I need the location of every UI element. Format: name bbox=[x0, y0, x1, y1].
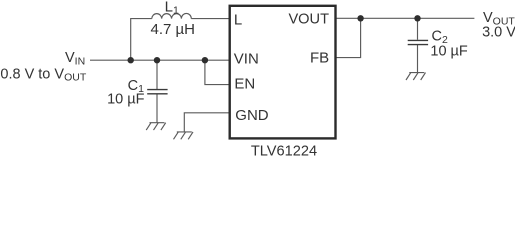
op-amp U1 TLV61224 IC body bbox=[230, 6, 336, 139]
ground C1 bbox=[146, 123, 166, 130]
svg-text:10 µF: 10 µF bbox=[107, 92, 145, 108]
svg-text:GND: GND bbox=[235, 107, 268, 124]
svg-text:0.8 V to VOUT: 0.8 V to VOUT bbox=[0, 66, 86, 83]
svg-text:L: L bbox=[234, 12, 242, 29]
svg-text:3.0 V: 3.0 V bbox=[482, 25, 515, 41]
node C1/VIN junction bbox=[154, 57, 160, 63]
node C2/VOUT junction bbox=[414, 15, 420, 21]
svg-text:FB: FB bbox=[310, 50, 329, 67]
ground C2 bbox=[406, 73, 426, 80]
node junction dots bbox=[128, 15, 421, 63]
svg-text:EN: EN bbox=[234, 75, 255, 92]
svg-text:TLV61224: TLV61224 bbox=[251, 143, 317, 157]
node inductor/VIN junction bbox=[128, 57, 134, 63]
wire VIN rail bbox=[90, 59, 229, 61]
wire inductor branch bbox=[131, 19, 229, 61]
wire C1 branch bbox=[156, 60, 158, 122]
wire VOUT rail bbox=[336, 17, 474, 19]
node EN/VIN junction bbox=[202, 57, 208, 63]
wire EN branch bbox=[205, 60, 229, 84]
svg-text:VIN: VIN bbox=[234, 50, 259, 67]
wire GND branch bbox=[184, 113, 228, 132]
node FB/VOUT junction bbox=[357, 15, 363, 21]
capacitor C1 bbox=[147, 90, 167, 94]
svg-text:L1: L1 bbox=[165, 0, 179, 17]
svg-text:10 µF: 10 µF bbox=[430, 43, 468, 59]
capacitor C2 bbox=[408, 40, 428, 44]
wire C2 branch bbox=[417, 18, 419, 72]
svg-text:4.7 µH: 4.7 µH bbox=[151, 21, 196, 38]
svg-text:VOUT: VOUT bbox=[288, 11, 329, 27]
inductor L1 bbox=[152, 13, 191, 18]
wire FB branch bbox=[336, 18, 360, 57]
ground GND pin bbox=[174, 132, 194, 139]
svg-text:VIN: VIN bbox=[65, 50, 85, 67]
